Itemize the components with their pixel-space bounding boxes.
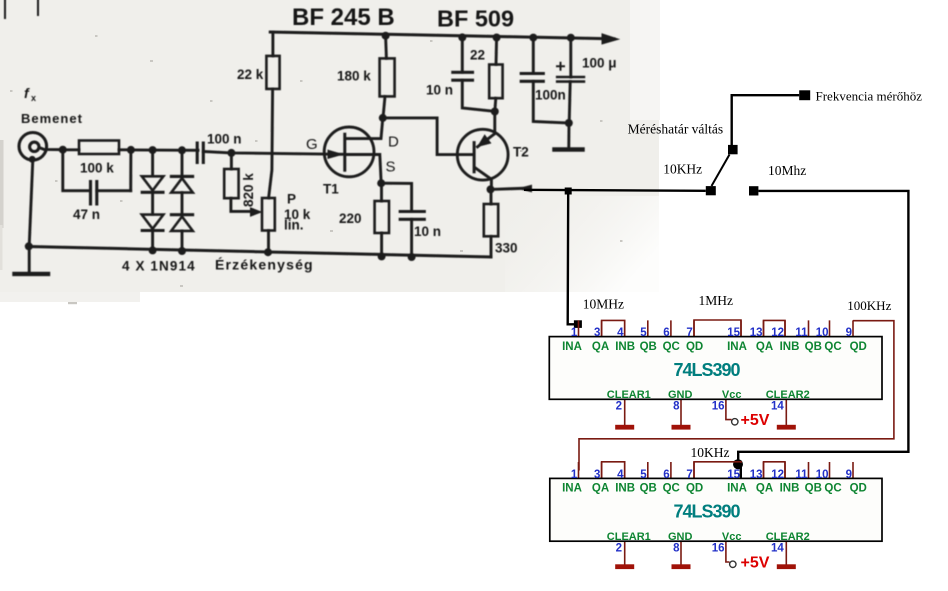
IC2 feedback link QA-INB — [602, 462, 625, 479]
wire T1 drain — [346, 118, 383, 139]
svg-text:1MHz: 1MHz — [699, 293, 734, 308]
diode D2 1N914 — [151, 192, 154, 214]
diode D3 1N914 — [181, 150, 184, 176]
svg-text:2: 2 — [616, 543, 622, 555]
junction node at output — [565, 188, 572, 195]
svg-text:Méréshatár váltás: Méréshatár váltás — [628, 122, 724, 137]
svg-text:QB: QB — [640, 341, 657, 353]
wire J1 to node A — [39, 148, 63, 150]
ground — [28, 246, 31, 272]
junction dot 10KHz tap — [733, 459, 743, 469]
svg-text:2: 2 — [616, 401, 622, 413]
svg-text:INB: INB — [780, 483, 800, 495]
svg-text:QA: QA — [756, 483, 773, 495]
resistor 180k — [380, 58, 395, 96]
svg-text:+5V: +5V — [741, 412, 770, 429]
svg-text:QD: QD — [686, 341, 703, 353]
IC2 bottom names — [607, 531, 810, 543]
scanned text labels — [21, 4, 617, 274]
svg-text:QC: QC — [824, 483, 841, 495]
svg-text:QD: QD — [850, 483, 867, 495]
svg-text:Érzékenység: Érzékenység — [215, 257, 314, 273]
svg-text:100KHz: 100KHz — [847, 298, 891, 313]
IC2 ground pin 2 — [615, 564, 634, 569]
scan edge artifact — [5, 0, 38, 18]
svg-text:GND: GND — [668, 531, 693, 543]
svg-text:74LS390: 74LS390 — [673, 502, 740, 522]
resistor 22k — [266, 56, 279, 89]
resistor 820k — [224, 169, 238, 198]
svg-text:9: 9 — [846, 469, 852, 481]
svg-text:T2: T2 — [513, 145, 529, 160]
arrowhead at output wire joint — [519, 185, 532, 191]
svg-text:10Mhz: 10Mhz — [768, 163, 806, 178]
potentiometer P 10k lin — [262, 198, 275, 231]
svg-text:7: 7 — [686, 327, 692, 339]
svg-text:QA: QA — [592, 483, 609, 495]
wire T2 emitter out — [491, 188, 525, 189]
svg-text:GND: GND — [668, 389, 693, 401]
svg-text:10: 10 — [816, 469, 829, 481]
svg-text:10 n: 10 n — [414, 224, 441, 239]
svg-text:INA: INA — [562, 483, 582, 495]
IC1 bottom names — [607, 389, 810, 401]
svg-text:220: 220 — [339, 211, 362, 226]
scan noise — [0, 140, 4, 228]
svg-text:CLEAR2: CLEAR2 — [766, 531, 810, 543]
IC2 pin numbers top — [571, 469, 852, 481]
svg-text:Vcc: Vcc — [722, 531, 742, 543]
ground rail bottom — [29, 247, 491, 258]
svg-text:100n: 100n — [535, 88, 566, 103]
svg-text:74LS390: 74LS390 — [673, 360, 740, 380]
svg-text:4: 4 — [617, 327, 624, 339]
svg-text:CLEAR2: CLEAR2 — [766, 389, 810, 401]
svg-text:1: 1 — [571, 469, 578, 481]
svg-text:QA: QA — [592, 341, 609, 353]
capacitor 100n input coupling — [197, 143, 203, 163]
IC1 pin numbers top — [571, 327, 852, 339]
svg-text:15: 15 — [727, 327, 740, 339]
switch arm — [712, 155, 730, 187]
resistor 22 — [489, 65, 502, 99]
supply rail top — [270, 32, 614, 39]
wire switch common up to output terminal — [732, 95, 800, 145]
switch contact 10Mhz — [749, 186, 758, 195]
svg-text:22 k: 22 k — [237, 67, 264, 82]
resistor 220 — [375, 201, 389, 233]
svg-text:11: 11 — [795, 469, 808, 481]
supply arrow — [602, 34, 619, 44]
svg-text:100 k: 100 k — [80, 161, 114, 176]
IC1 ground pin 2 — [615, 425, 634, 430]
IC2 ground pin 8 — [672, 564, 691, 569]
svg-text:7: 7 — [686, 469, 692, 481]
wire node A down to 47n — [63, 150, 90, 191]
wiper arrow 820k to pot — [231, 198, 253, 211]
resistor 100k — [79, 141, 119, 155]
svg-text:INB: INB — [780, 341, 800, 353]
svg-text:100 n: 100 n — [207, 132, 242, 147]
IC2 pin stubs — [579, 462, 854, 565]
svg-text:10MHz: 10MHz — [583, 297, 624, 312]
IC1 pin names — [562, 341, 867, 353]
svg-text:BF 509: BF 509 — [437, 6, 514, 32]
svg-text:11: 11 — [795, 327, 808, 339]
T2 emitter with arrow — [478, 112, 495, 147]
T2 collector — [476, 168, 492, 190]
svg-text:CLEAR1: CLEAR1 — [607, 531, 651, 543]
diode D1 1N914 — [151, 150, 154, 176]
svg-text:3: 3 — [594, 469, 600, 481]
svg-text:1: 1 — [571, 327, 578, 339]
capacitor 100n supply — [521, 74, 543, 82]
svg-text:6: 6 — [663, 327, 669, 339]
IC1 body — [549, 337, 882, 400]
diode D4 1N914 — [181, 193, 184, 215]
svg-text:13: 13 — [750, 327, 763, 339]
connector J1 Bemenet — [19, 133, 47, 161]
svg-text:100 μ: 100 μ — [582, 56, 617, 71]
IC1 ground pin 14 — [777, 425, 796, 430]
plus sign 100u — [557, 63, 564, 70]
IC2 Vcc circle — [730, 561, 736, 567]
IC2 feedback link QD-INA — [694, 462, 741, 479]
svg-text:INA: INA — [727, 483, 747, 495]
svg-text:9: 9 — [846, 327, 852, 339]
svg-text:10KHz: 10KHz — [691, 445, 730, 460]
switch common terminal — [728, 145, 738, 154]
svg-text:16: 16 — [712, 543, 725, 555]
svg-text:8: 8 — [673, 401, 680, 413]
svg-text:INB: INB — [615, 483, 635, 495]
svg-text:10: 10 — [816, 327, 829, 339]
svg-text:QB: QB — [805, 483, 822, 495]
capacitor 100u electrolytic — [557, 77, 584, 82]
svg-text:5: 5 — [640, 469, 647, 481]
svg-text:10 n: 10 n — [426, 83, 453, 98]
svg-text:x: x — [31, 93, 36, 103]
svg-text:Bemenet: Bemenet — [21, 111, 83, 126]
wire J1 down to ground rail — [29, 160, 33, 246]
terminal Frekvencia merohoz — [799, 90, 810, 100]
svg-text:820 k: 820 k — [241, 173, 256, 207]
svg-text:INB: INB — [615, 341, 635, 353]
resistor 330 — [484, 204, 498, 236]
svg-text:6: 6 — [663, 469, 669, 481]
svg-text:QB: QB — [805, 341, 822, 353]
svg-text:16: 16 — [712, 401, 725, 413]
svg-text:QC: QC — [663, 483, 680, 495]
svg-text:QC: QC — [663, 341, 680, 353]
svg-text:Frekvencia mérőhöz: Frekvencia mérőhöz — [816, 89, 923, 104]
wire right contact to divider chain — [738, 191, 908, 464]
serif labels — [583, 89, 923, 461]
svg-text:12: 12 — [771, 469, 784, 481]
svg-text:QA: QA — [756, 341, 773, 353]
svg-text:G: G — [306, 136, 318, 153]
svg-text:INA: INA — [562, 341, 582, 353]
svg-text:D: D — [388, 134, 399, 151]
svg-text:12: 12 — [771, 327, 784, 339]
svg-text:QD: QD — [686, 483, 703, 495]
svg-text:Vcc: Vcc — [722, 389, 742, 401]
terminal IC1 INA — [574, 320, 582, 328]
IC1 pin numbers bottom — [616, 401, 785, 413]
capacitor 10n collector — [453, 72, 473, 80]
svg-text:180 k: 180 k — [337, 69, 371, 84]
wire T1 source — [346, 155, 382, 184]
wire node B to diodes — [131, 148, 198, 151]
svg-text:5: 5 — [640, 327, 647, 339]
svg-text:P: P — [287, 192, 296, 207]
svg-text:T1: T1 — [323, 182, 339, 197]
IC2 body — [550, 478, 882, 541]
svg-text:22: 22 — [470, 48, 485, 63]
svg-text:QD: QD — [850, 341, 867, 353]
IC2 ground pin 14 — [777, 564, 796, 569]
wire drain node to T2 base — [383, 118, 473, 155]
wire 100n to gate line — [203, 152, 343, 155]
svg-text:4 X 1N914: 4 X 1N914 — [122, 259, 196, 274]
junction dots — [25, 32, 575, 261]
IC2 pin names — [562, 483, 867, 495]
svg-text:4: 4 — [617, 469, 624, 481]
wire 47n up to node B — [129, 150, 132, 191]
ground at 100u — [567, 123, 570, 148]
transistor T1 BF245B — [324, 127, 374, 177]
switch contact 10KHz — [706, 186, 716, 195]
capacitor 47n — [91, 182, 97, 205]
svg-text:330: 330 — [495, 241, 518, 256]
svg-text:QC: QC — [824, 341, 841, 353]
svg-text:INA: INA — [727, 341, 747, 353]
IC1 feedback link QD-INA — [694, 320, 741, 337]
svg-text:+5V: +5V — [741, 555, 770, 572]
svg-text:8: 8 — [673, 543, 680, 555]
svg-text:14: 14 — [771, 543, 784, 555]
svg-text:BF 245 B: BF 245 B — [292, 4, 395, 31]
svg-text:lin.: lin. — [284, 218, 304, 233]
capacitor 10n source bypass — [400, 212, 424, 220]
IC2 feedback link QA2-INB2 — [764, 462, 786, 479]
wire 100KHz QD2 to IC2 INA (red) — [579, 321, 894, 471]
IC1 feedback link QA-INB — [602, 320, 625, 336]
gate arrow of T1 — [328, 150, 342, 158]
wire output to switch contact — [524, 190, 706, 191]
IC1 feedback link QA2-INB2 — [764, 320, 786, 336]
wire source node right to 10n — [381, 183, 411, 209]
wire 10KHz tap into IC2 pin15 — [738, 464, 741, 478]
IC2 pin numbers bottom — [616, 543, 785, 555]
svg-text:15: 15 — [727, 469, 740, 481]
wire output node down to counter input — [568, 191, 574, 324]
svg-text:14: 14 — [771, 401, 784, 413]
svg-text:CLEAR1: CLEAR1 — [607, 389, 651, 401]
svg-text:3: 3 — [594, 327, 600, 339]
IC1 ground pin 8 — [672, 425, 691, 430]
IC1 Vcc circle — [732, 419, 738, 425]
IC1 pin stubs — [579, 320, 854, 425]
svg-text:13: 13 — [750, 469, 763, 481]
svg-text:S: S — [386, 159, 396, 176]
transistor T2 BF509 — [457, 129, 508, 180]
svg-text:QB: QB — [640, 483, 657, 495]
svg-text:10KHz: 10KHz — [663, 161, 702, 176]
svg-text:47 n: 47 n — [73, 207, 100, 222]
